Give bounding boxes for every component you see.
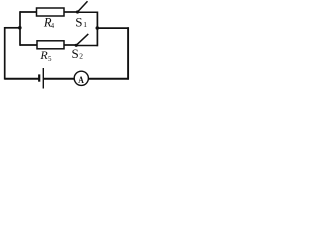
wire right inner vertical [96,12,98,47]
node left junction [18,26,22,30]
battery [39,68,43,89]
wire ammeter to right [88,78,128,80]
wire right outer vertical [127,27,129,79]
svg-text:5: 5 [48,55,52,63]
svg-text:A: A [78,76,84,86]
wire left outer vertical [4,27,6,80]
wire R4 to S1 [64,11,78,13]
wire left inner vertical [19,11,21,46]
wire battery to ammeter [43,78,74,80]
switch S2 [72,34,98,61]
ammeter A [74,71,88,86]
wire left stub [5,27,20,29]
wire right stub [97,27,129,29]
resistor R4 [37,8,65,30]
svg-text:4: 4 [51,22,55,30]
node right junction [96,26,100,30]
wire bottom left segment [5,78,40,80]
svg-text:1: 1 [83,20,87,29]
wire R5 to S2 [64,44,76,46]
resistor R5 [37,41,64,63]
wire second-branch left segment [20,44,37,46]
wire top-branch left segment [20,11,37,13]
svg-text:2: 2 [79,52,83,61]
svg-text:S: S [72,46,79,61]
switch S1 [75,1,97,29]
svg-text:S: S [75,15,82,30]
